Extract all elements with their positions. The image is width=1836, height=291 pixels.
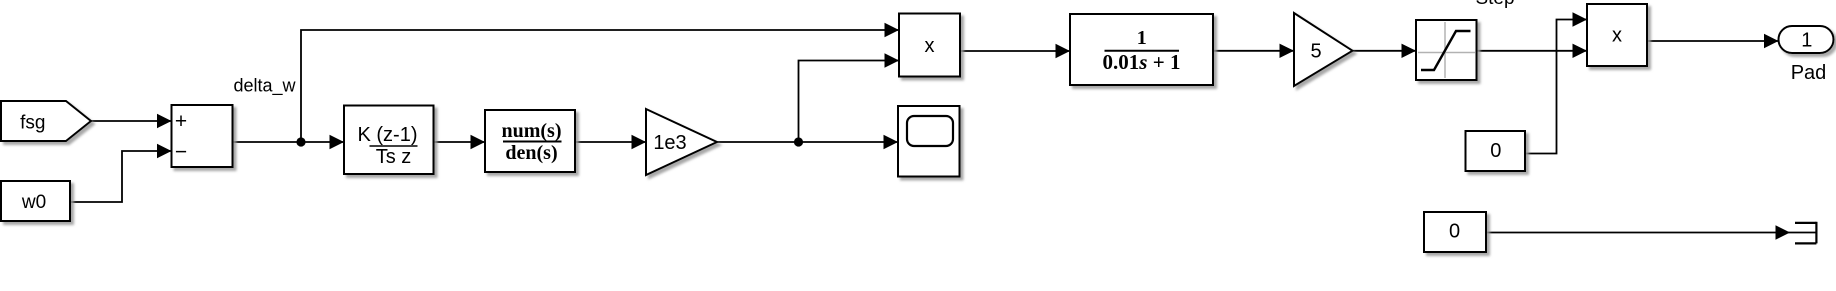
svg-text:fsg: fsg: [20, 113, 45, 134]
svg-text:delta_w: delta_w: [233, 76, 296, 97]
svg-text:1: 1: [1801, 30, 1812, 52]
svg-text:1: 1: [1137, 27, 1147, 49]
svg-text:+: +: [175, 110, 187, 133]
svg-text:den(s): den(s): [505, 142, 557, 164]
svg-text:1e3: 1e3: [653, 132, 686, 154]
svg-text:0: 0: [1490, 140, 1501, 162]
svg-text:−: −: [175, 141, 187, 164]
svg-text:num(s): num(s): [501, 120, 561, 142]
svg-text:x: x: [925, 35, 935, 57]
svg-text:Ts z: Ts z: [376, 146, 412, 168]
svg-text:x: x: [1612, 24, 1622, 46]
svg-text:K (z-1): K (z-1): [358, 124, 418, 146]
svg-text:0.01s + 1: 0.01s + 1: [1103, 50, 1181, 74]
svg-text:0: 0: [1449, 221, 1460, 243]
svg-text:5: 5: [1310, 41, 1321, 63]
svg-text:Step: Step: [1475, 0, 1514, 9]
svg-text:w0: w0: [21, 192, 46, 213]
svg-text:Pad: Pad: [1791, 62, 1827, 84]
